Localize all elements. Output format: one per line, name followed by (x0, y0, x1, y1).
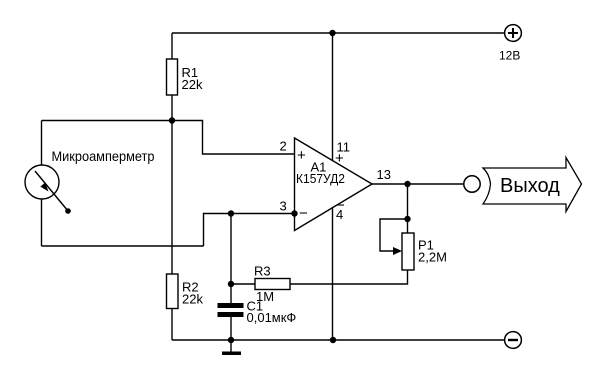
wire R1 bottom lead (171, 95, 173, 121)
svg-text:3: 3 (280, 199, 287, 214)
svg-text:2,2М: 2,2М (418, 250, 447, 265)
wire microammeter box left edge upper (41, 121, 43, 166)
svg-text:+: + (335, 150, 344, 167)
pin 11 wire (332, 33, 334, 161)
svg-text:R3: R3 (254, 264, 271, 279)
microammeter needle arrowhead (40, 183, 48, 192)
svg-text:0,01мкФ: 0,01мкФ (247, 310, 297, 325)
wire top rail (172, 32, 504, 34)
wire P1 bottom lead to R3 (290, 270, 408, 284)
op-amp A1 triangle (295, 138, 373, 231)
svg-text:Выход: Выход (500, 175, 560, 197)
power terminal +12V circle (505, 25, 522, 42)
pin 4 wire (332, 207, 334, 340)
node top junction dot (pin11 rail) (329, 30, 335, 36)
svg-text:12В: 12В (499, 49, 520, 63)
node junction dot R3-C1 (228, 281, 234, 287)
node pin3 dot at op-amp edge (291, 210, 297, 216)
wire microammeter box left edge lower (41, 199, 43, 246)
wire R2 bottom lead (171, 309, 173, 341)
output arrow banner (483, 158, 582, 212)
node junction dot C1-ground (228, 337, 234, 343)
output terminal circle (464, 176, 480, 192)
resistor R2 body (167, 274, 179, 309)
wire R1 top lead (171, 33, 173, 59)
svg-text:13: 13 (377, 167, 391, 182)
resistor R1 (167, 59, 178, 95)
potentiometer P1 body (402, 233, 414, 270)
wire R3 left lead (231, 283, 255, 285)
resistor R3 body (255, 279, 290, 290)
node junction dot pin4 rail (330, 337, 336, 343)
capacitor C1 plate 2 (218, 312, 244, 317)
svg-text:22k: 22k (182, 292, 203, 307)
wire C1 branch from pin3 node (230, 214, 232, 304)
wire P1 wiper loop (380, 219, 408, 251)
power terminal plus sign (508, 28, 518, 38)
minus terminal circle (505, 332, 522, 349)
node P1 wiper junction dot (404, 216, 410, 222)
microammeter needle (35, 171, 68, 211)
minus terminal bar (508, 339, 518, 341)
P1 wiper arrowhead (393, 247, 402, 255)
ground bar (222, 352, 241, 356)
microammeter needle end dot (65, 208, 71, 214)
wire bottom rail (172, 339, 505, 341)
svg-text:К157УД2: К157УД2 (296, 171, 345, 186)
wire output to P1 top (407, 184, 409, 219)
wire node A down to R2 (171, 121, 173, 275)
svg-text:−: − (299, 205, 308, 222)
svg-text:+: + (297, 147, 306, 164)
wire pin3 riser (204, 214, 295, 247)
wire P1 top lead (407, 219, 409, 233)
node A junction dot (169, 117, 175, 123)
microammeter M1 circle (25, 165, 59, 199)
ground stub (230, 340, 232, 352)
node output junction dot (404, 181, 410, 187)
output wire pin 13 (372, 183, 464, 185)
svg-text:2: 2 (280, 139, 287, 154)
wire node A to pin 2 (172, 121, 295, 155)
wire microammeter box top edge (42, 120, 173, 122)
node junction dot C1 top on pin3 wire (228, 210, 234, 216)
capacitor C1 plate 1 (218, 303, 244, 308)
svg-text:−: − (336, 197, 345, 214)
wire microammeter box bottom edge (42, 245, 204, 247)
svg-text:Микроамперметр: Микроамперметр (52, 148, 155, 164)
svg-text:22k: 22k (182, 77, 203, 92)
wire C1 bottom lead (230, 317, 232, 340)
